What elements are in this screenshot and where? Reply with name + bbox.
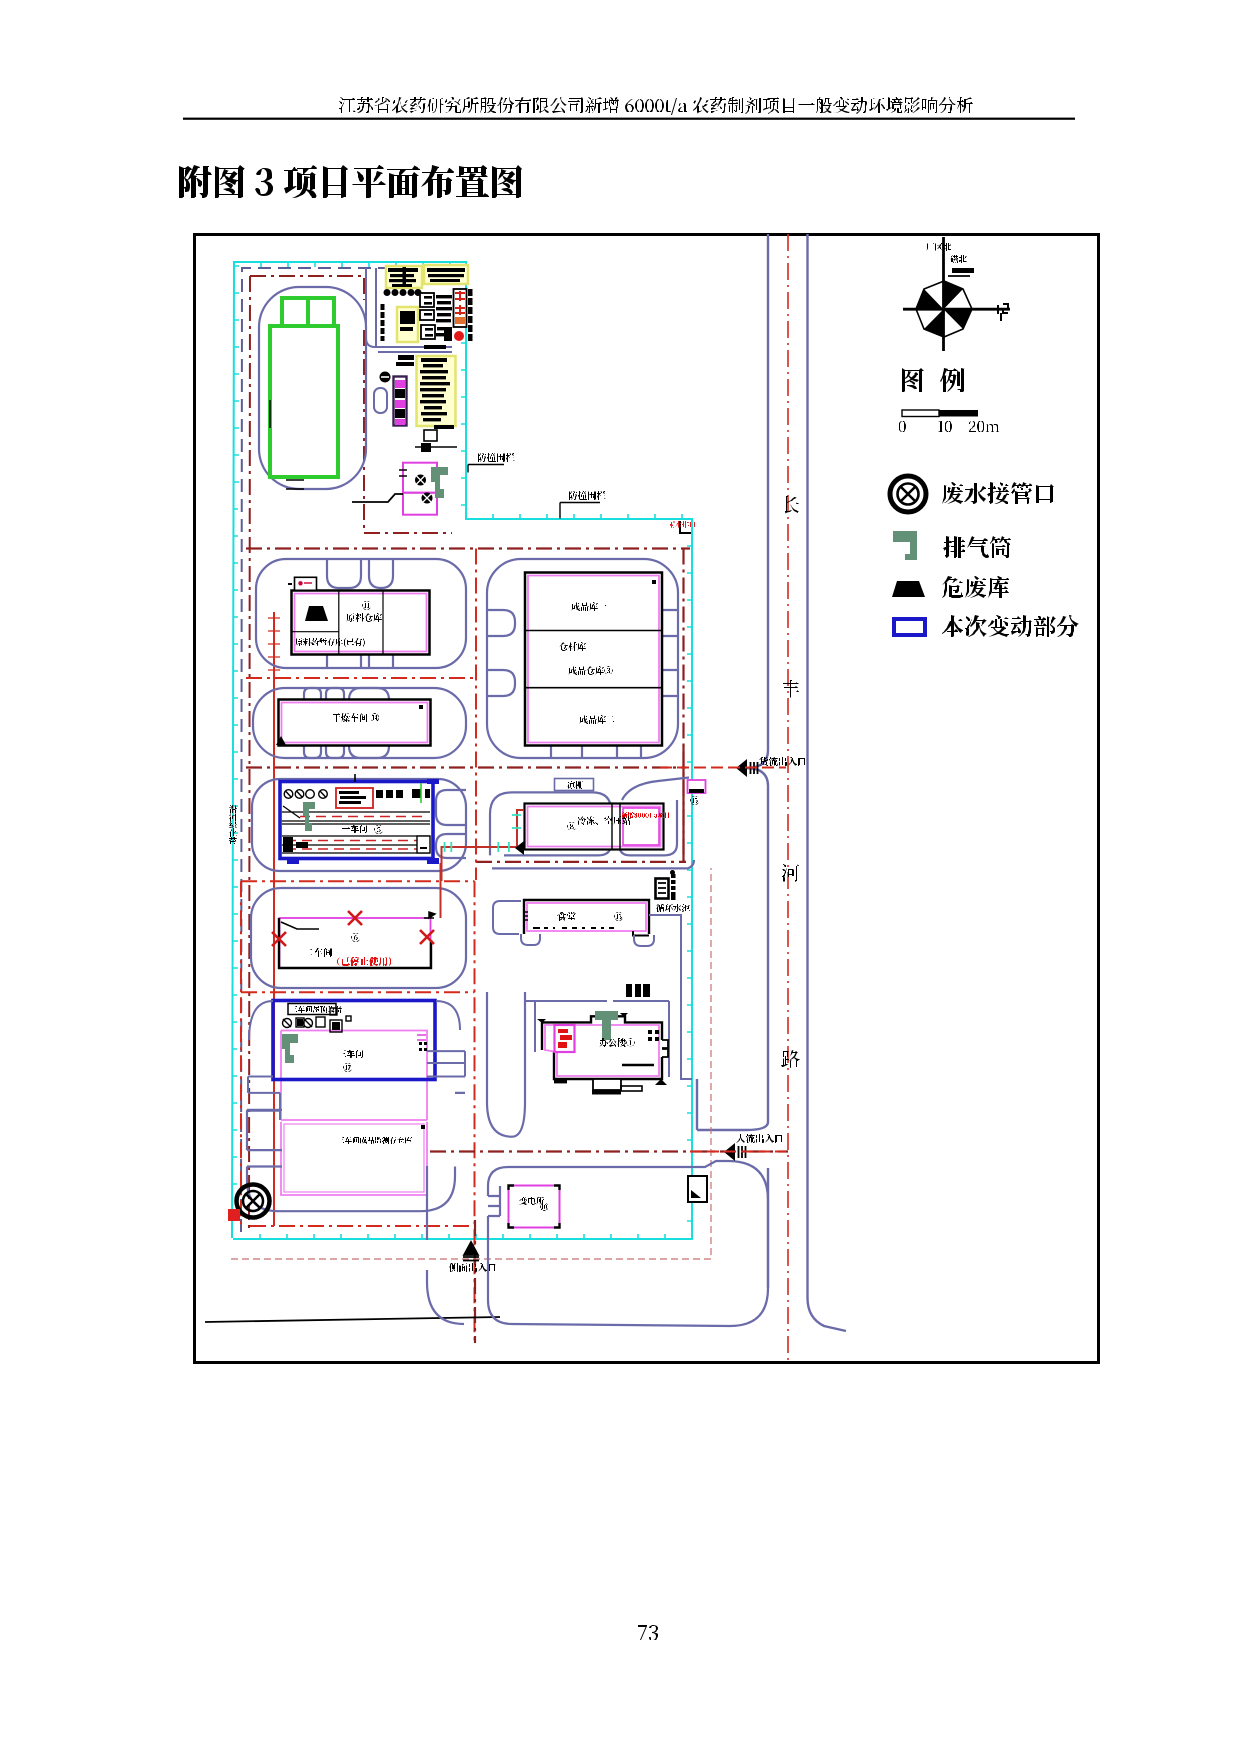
compass label mag north bbox=[950, 255, 967, 263]
workshop1 red box rows bbox=[339, 791, 359, 794]
legend hazwaste symbol bbox=[892, 581, 925, 597]
label workshop2 num bbox=[351, 933, 360, 942]
workshop1 top tick bbox=[354, 774, 356, 782]
yellow box 3 bbox=[397, 307, 418, 342]
dot B bbox=[419, 705, 423, 709]
road name char 丰 bbox=[782, 680, 800, 698]
label cooling pool bbox=[656, 904, 690, 912]
red new-project text bbox=[622, 812, 669, 819]
tiny red text NE bbox=[668, 521, 695, 528]
road entrance curves west bbox=[697, 750, 768, 1130]
canteen SE step bbox=[633, 931, 649, 936]
label storage bbox=[337, 1137, 412, 1144]
road loop green bottom exit bbox=[330, 347, 452, 560]
label people entrance bbox=[736, 1134, 783, 1143]
label material wh bbox=[559, 642, 586, 651]
label workshop2 bbox=[304, 948, 332, 957]
label raw warehouse num bbox=[362, 601, 371, 610]
fence leader 1 bbox=[468, 465, 504, 473]
yellow4 below bbox=[424, 430, 437, 441]
workshop1 red box bbox=[336, 788, 373, 808]
road right of green bbox=[366, 268, 452, 352]
road vertical x427 bbox=[426, 1166, 428, 1240]
workshop3 roof label box bbox=[288, 1004, 336, 1015]
legend vent pipe symbol bbox=[893, 531, 917, 560]
substation building bbox=[509, 1186, 560, 1228]
office vent pipe bbox=[595, 1011, 618, 1040]
red line x475 lower bbox=[474, 1220, 476, 1343]
fence leader 2 bbox=[560, 503, 600, 519]
road name char 长 bbox=[782, 496, 799, 514]
office flags bbox=[537, 1013, 628, 1023]
red property line top bbox=[250, 276, 452, 533]
utility ticks bbox=[286, 470, 407, 489]
road loop block D1 bbox=[251, 888, 466, 988]
big oval road right mid bbox=[487, 992, 525, 1137]
legend scale 10 bbox=[938, 421, 952, 432]
triangle B corner bbox=[276, 736, 286, 745]
road mid column lines bbox=[396, 347, 452, 377]
office three units bbox=[626, 984, 650, 997]
road curve below utility bbox=[258, 513, 452, 537]
red block box row D-E-F bbox=[241, 881, 475, 1343]
red grid h y862 bbox=[476, 861, 686, 863]
road name char 河 bbox=[782, 864, 799, 882]
road loop block B bbox=[253, 688, 466, 758]
workshop1 red dashes upper bbox=[300, 816, 425, 818]
header rule bbox=[183, 118, 1075, 120]
road loop block C2 bbox=[490, 792, 611, 855]
compass east mark bbox=[998, 304, 1008, 321]
circle symbol x385 bbox=[380, 372, 391, 383]
road oval between rows bbox=[486, 1001, 525, 1136]
workshop1 small squares bbox=[376, 789, 430, 798]
blue box feet bbox=[287, 779, 439, 864]
dot storage bbox=[421, 1125, 425, 1129]
legend vent text bbox=[943, 536, 1011, 558]
guard num bbox=[690, 796, 699, 805]
label office bbox=[599, 1038, 635, 1047]
utility magenta building bbox=[403, 463, 437, 515]
workshop2 black edges bbox=[279, 918, 431, 968]
tank blob 3 bbox=[400, 311, 415, 324]
office porch bbox=[593, 1079, 621, 1090]
workshop3 pink building bbox=[281, 1031, 427, 1121]
road bits left of workshop3 bbox=[248, 1001, 280, 1120]
label stopped use bbox=[337, 957, 391, 966]
road island small bbox=[374, 388, 387, 413]
tank text mid 2 bbox=[398, 355, 414, 360]
small annex box block A1 bbox=[295, 577, 317, 590]
road loop block C1 bbox=[252, 779, 466, 871]
red pipe to workshop1 bbox=[442, 810, 525, 881]
red grid h y678 bbox=[246, 677, 477, 679]
parking bumps B bbox=[304, 688, 389, 758]
label workshop3 bbox=[338, 1050, 363, 1058]
tank labels blob 1 bbox=[388, 268, 418, 272]
workshop1 lines lower bbox=[282, 836, 430, 853]
label substation bbox=[519, 1197, 544, 1205]
office bottom step bbox=[554, 1079, 567, 1084]
side entrance arrow bbox=[463, 1242, 479, 1261]
yellow4 text rows bbox=[421, 358, 447, 362]
shed label bbox=[567, 781, 583, 789]
drying workshop building bbox=[279, 700, 431, 746]
figure title bbox=[179, 165, 522, 198]
black sq below red bbox=[444, 327, 452, 341]
refrigeration divider bbox=[612, 804, 620, 849]
cooling pool icon bbox=[656, 879, 669, 899]
office building outline bbox=[541, 1016, 662, 1079]
red property line west bbox=[249, 276, 250, 1228]
label finished wh 1 bbox=[571, 602, 607, 611]
compass rose petals bbox=[916, 281, 972, 337]
label canteen bbox=[557, 912, 576, 921]
fence label 1 bbox=[478, 453, 515, 462]
green building bbox=[270, 298, 338, 477]
label canteen num bbox=[614, 912, 623, 921]
change area box workshop3 bbox=[273, 1001, 435, 1080]
road curve bottom left bbox=[427, 1270, 464, 1324]
finished goods warehouse building bbox=[525, 573, 662, 746]
road loop block A2 bbox=[487, 559, 678, 758]
label workshop3 num bbox=[343, 1063, 352, 1072]
legend change text bbox=[942, 615, 1079, 637]
yellow box 1 bbox=[386, 266, 422, 288]
red drop pipe workshop2 bbox=[440, 863, 442, 918]
workshop2 diagonal bbox=[281, 922, 319, 929]
workshop1 lines upper bbox=[282, 806, 430, 824]
office right notches bbox=[662, 1040, 668, 1057]
hazardous waste trapezoid in warehouse bbox=[305, 606, 328, 621]
road changfeng centerline bbox=[787, 234, 789, 1362]
parking bumps C1 right bbox=[436, 790, 466, 858]
road loop bottom right bbox=[488, 1161, 768, 1326]
canteen windows bbox=[533, 927, 614, 929]
workshop3 roof label bbox=[290, 1006, 342, 1013]
label side entrance bbox=[449, 1263, 496, 1272]
road loop block A1 bbox=[256, 559, 466, 668]
workshop3 pink marks bbox=[417, 1035, 426, 1040]
gate box people entrance bbox=[688, 1176, 707, 1202]
red utility ticks bbox=[268, 618, 280, 670]
compass label north bbox=[926, 243, 951, 251]
legend title bbox=[902, 368, 965, 392]
vertical text col 1 bbox=[381, 304, 385, 310]
red circle symbol bbox=[454, 331, 464, 341]
green belt vertical text2 bbox=[229, 813, 237, 821]
red tank frame bbox=[454, 289, 467, 327]
label drying workshop bbox=[332, 713, 379, 722]
road bits right of workshop3 bbox=[427, 1001, 465, 1077]
legend scale 20m bbox=[969, 421, 999, 432]
storage building inner line bbox=[284, 1124, 424, 1192]
tank labels blob 2 bbox=[427, 268, 465, 272]
legend scale 0 bbox=[899, 421, 906, 432]
parking bumps A1 top bbox=[327, 559, 361, 588]
road changfeng left edge bbox=[767, 234, 769, 1288]
wastewater connection symbol bbox=[237, 1185, 270, 1218]
cyan boundary ticks bbox=[232, 262, 692, 1239]
road loop F bottom bbox=[247, 1093, 465, 1211]
warehouse raw material building bbox=[292, 591, 430, 655]
black line bottom left bbox=[205, 1317, 500, 1322]
canteen road bbox=[493, 901, 654, 946]
red grid v x683 bbox=[682, 549, 684, 862]
office medical box bbox=[555, 1025, 575, 1052]
cyan pipe ticks C2 bbox=[445, 815, 521, 852]
green belt vertical text4 bbox=[229, 829, 237, 837]
compass cross bbox=[903, 237, 1010, 351]
workshop1 red dashes lower bbox=[286, 841, 425, 850]
label finished wh 3 bbox=[568, 666, 613, 675]
guard house NE bbox=[688, 780, 706, 793]
inner dashed boundary bbox=[241, 268, 455, 1232]
yellow box 4 bbox=[417, 356, 456, 426]
workshop2 flag bbox=[424, 912, 435, 918]
label refrigeration bbox=[577, 816, 631, 825]
office dots bbox=[648, 1030, 659, 1041]
figure border frame bbox=[195, 235, 1099, 1363]
fence label 2 bbox=[569, 491, 606, 500]
tank circles row bbox=[384, 289, 422, 296]
road name char 路 bbox=[781, 1050, 800, 1068]
workshop3 equipment row bbox=[283, 1008, 352, 1032]
warehouse dividers bbox=[292, 591, 383, 654]
page number bbox=[638, 1625, 658, 1640]
green belt vertical text3 bbox=[229, 821, 237, 829]
legend scale bar bbox=[902, 410, 939, 417]
refrigeration pink cell bbox=[623, 808, 659, 845]
shed label box bbox=[555, 779, 594, 791]
workshop2 building bbox=[280, 918, 431, 968]
tank texts right col bbox=[468, 289, 473, 296]
canteen building bbox=[524, 900, 649, 934]
red grid h y767 bbox=[246, 766, 686, 768]
purple tank building bbox=[394, 377, 407, 426]
utility pipes symbols bbox=[415, 475, 433, 504]
road loop green building bbox=[259, 287, 366, 489]
freight entrance arrow bbox=[736, 759, 747, 777]
road loop C2 right part bbox=[492, 778, 694, 869]
legend hazwaste text bbox=[942, 576, 1009, 598]
freight entrance red dash bbox=[660, 767, 786, 769]
road right zone verticals bbox=[525, 915, 692, 1079]
header text bbox=[339, 97, 973, 115]
people entrance red dash bbox=[690, 1151, 786, 1153]
road below yellow zone bbox=[352, 430, 370, 460]
refrigeration building bbox=[525, 804, 664, 850]
arrow into refrigeration bbox=[515, 841, 524, 855]
label raw warehouse sub bbox=[295, 638, 365, 647]
red outfall box bbox=[228, 1209, 240, 1221]
red X marks workshop2 bbox=[272, 911, 434, 946]
utility vent pipe bbox=[431, 467, 448, 498]
red grid h y548 bbox=[246, 547, 690, 549]
workshop1 vent pipe bbox=[303, 802, 315, 831]
red entrance line y1151 bbox=[430, 1150, 788, 1152]
storage building upper bbox=[281, 1120, 427, 1195]
workshop1 equipment circles bbox=[284, 790, 327, 799]
road left of purple tank bbox=[366, 347, 452, 427]
warehouse A2 dividers bbox=[525, 631, 662, 688]
parking bumps A1 bottom bbox=[327, 640, 393, 668]
label workshop1 num bbox=[374, 825, 383, 834]
site boundary cyan line bbox=[232, 262, 692, 1239]
yellow box 2 bbox=[424, 265, 468, 284]
workshop1 black boxes lower bbox=[283, 837, 308, 852]
black line below yellow4 bbox=[415, 446, 457, 448]
road changfeng right edge bbox=[808, 234, 847, 1331]
workshop1 green line bbox=[420, 783, 422, 803]
canteen door ticks bbox=[524, 912, 528, 920]
red line x683 guard bbox=[682, 745, 684, 862]
black wall line bbox=[352, 494, 403, 502]
office inner line bbox=[622, 1064, 654, 1066]
legend wastewater symbol bbox=[890, 476, 926, 512]
label workshop1 bbox=[342, 825, 367, 833]
office building pink bbox=[545, 1025, 659, 1076]
workshop3 vent pipe bbox=[282, 1034, 298, 1063]
pink dashed property bottom bbox=[231, 868, 711, 1259]
label freight entrance bbox=[759, 757, 806, 766]
corner bracket NE bbox=[680, 521, 691, 533]
bottom cyan line bbox=[238, 1236, 694, 1238]
red grid v x476 bbox=[475, 549, 477, 881]
change area box workshop1 bbox=[280, 782, 433, 859]
compass tiny scale bbox=[948, 275, 970, 277]
green belt vertical text bbox=[229, 805, 237, 813]
label finished wh 2 bbox=[579, 715, 615, 724]
dot A2 bbox=[652, 580, 656, 584]
people entrance arrow bbox=[724, 1143, 735, 1161]
label substation num bbox=[540, 1203, 548, 1211]
legend wastewater text bbox=[942, 482, 1054, 504]
road around utility bbox=[356, 430, 437, 527]
compass rose outline bbox=[916, 281, 972, 337]
green building tick bbox=[269, 400, 271, 428]
red utility line x274 bbox=[273, 612, 275, 1226]
label refrigeration num bbox=[567, 822, 576, 831]
tank text mid boxes bbox=[420, 293, 435, 339]
label raw warehouse bbox=[346, 613, 382, 622]
legend change symbol bbox=[894, 619, 925, 635]
parking bumps A2 bbox=[487, 610, 678, 758]
green belt vertical text5 bbox=[229, 837, 237, 845]
